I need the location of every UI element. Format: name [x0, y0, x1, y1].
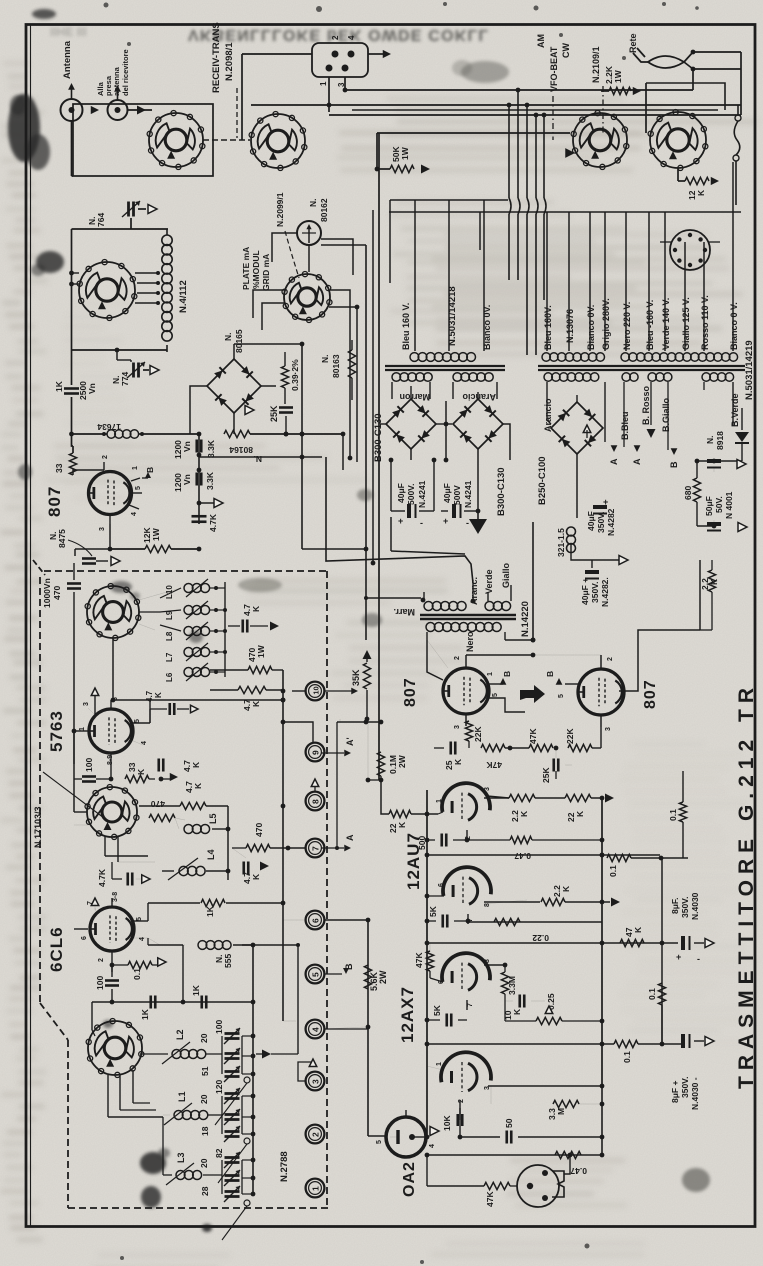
svg-text:TRASMETTITORE G.212 TR: TRASMETTITORE G.212 TR — [735, 682, 758, 1089]
svg-text:350V.: 350V. — [590, 582, 600, 603]
B arrow V2 — [500, 678, 507, 685]
svg-text:B.Verde: B.Verde — [730, 393, 740, 427]
cap 10K b — [456, 1114, 459, 1126]
junctions bundle — [516, 88, 521, 93]
svg-text:22K: 22K — [473, 726, 483, 742]
rotary switch S8 — [87, 586, 139, 638]
svg-text:L8: L8 — [165, 631, 174, 641]
vbus x199 — [198, 434, 200, 524]
coil L2 — [172, 1050, 181, 1059]
svg-text:A: A — [345, 834, 355, 841]
trimmer N.764 — [72, 228, 169, 230]
svg-text:764: 764 — [96, 213, 106, 227]
resistor 47K l — [426, 951, 433, 971]
BR3 out — [446, 423, 452, 425]
svg-text:RECEIV-TRANS: RECEIV-TRANS — [211, 22, 222, 93]
svg-text:%MODUL: %MODUL — [251, 250, 261, 289]
svg-text:25K: 25K — [269, 405, 279, 422]
antenna coupler box — [73, 104, 213, 176]
svg-text:0.47: 0.47 — [570, 1166, 587, 1176]
arrow into S3 — [565, 148, 575, 158]
dash-dot mode — [552, 96, 554, 140]
cap 4.7K v7top — [168, 703, 171, 715]
vbus x283 — [282, 670, 284, 1021]
svg-text:1W: 1W — [400, 146, 410, 160]
cap 40uF d — [585, 570, 599, 574]
switch left wires — [72, 272, 80, 274]
terminal 7 — [306, 839, 325, 858]
svg-text:4: 4 — [139, 937, 146, 941]
arrow J1-J2 — [91, 106, 99, 114]
svg-text:N.4282: N.4282 — [606, 508, 616, 536]
svg-text:+: + — [398, 516, 403, 526]
svg-text:1K: 1K — [140, 1008, 150, 1020]
cap 500 — [440, 834, 443, 847]
coil L9 — [184, 606, 193, 615]
V5b wires — [427, 1066, 443, 1070]
svg-text:5K: 5K — [428, 905, 438, 917]
cap 47K t — [242, 862, 245, 875]
rotary switch S3 mode — [573, 113, 627, 167]
vbus x379 — [378, 133, 380, 780]
svg-text:N.4030 -: N.4030 - — [690, 1077, 700, 1110]
svg-text:350V.: 350V. — [596, 512, 606, 533]
cap 1000Vn — [73, 563, 75, 580]
vbus x390 — [389, 200, 391, 283]
svg-text:6: 6 — [310, 918, 320, 923]
dash link S1a-S1b — [203, 139, 250, 141]
svg-text:1W: 1W — [151, 527, 161, 541]
T2 bottom wires — [576, 454, 578, 518]
cap 1K a — [149, 996, 152, 1009]
svg-text:L2: L2 — [175, 1029, 185, 1040]
V8 wires — [95, 908, 97, 914]
resistor 22K b — [568, 744, 592, 751]
vbus x343 — [342, 434, 344, 470]
svg-text:L7: L7 — [165, 652, 174, 662]
svg-text:40μF: 40μF — [586, 511, 596, 531]
wire n555 down — [182, 945, 184, 1002]
bridge rectifier N.80165 — [207, 359, 261, 413]
mains plug — [633, 53, 648, 62]
cap 10K — [518, 995, 521, 1008]
svg-text:K: K — [519, 810, 529, 817]
svg-text:A: A — [609, 458, 619, 465]
svg-text:774: 774 — [120, 372, 130, 386]
cap 5K b — [445, 1014, 448, 1027]
coil L4 — [179, 866, 188, 875]
meter wires — [308, 245, 310, 272]
wire PSU-T4 — [390, 517, 392, 551]
svg-text:20: 20 — [199, 1094, 209, 1104]
t3 wires — [298, 1062, 311, 1081]
svg-text:47K: 47K — [486, 760, 502, 770]
bridge wires — [233, 344, 235, 359]
svg-text:1000Vn: 1000Vn — [42, 578, 52, 608]
rotary switch S4 power — [650, 112, 706, 168]
svg-text:Rete: Rete — [628, 33, 638, 53]
tube V8 6CL6 — [90, 907, 134, 951]
vbus x253 — [252, 945, 254, 1195]
T2 secondary — [544, 373, 552, 381]
resistor 47K r — [620, 939, 644, 946]
cap 25K — [279, 406, 293, 409]
svg-text:100: 100 — [84, 758, 94, 772]
resistor 35K — [363, 650, 372, 659]
resistor 3.3M net — [601, 1086, 603, 1155]
cap 10K c — [427, 1103, 460, 1105]
svg-text:3: 3 — [454, 725, 461, 729]
svg-text:2: 2 — [102, 455, 109, 459]
bus y110 — [352, 109, 718, 111]
svg-text:K: K — [193, 782, 203, 789]
resistor 0.1d vert — [658, 983, 665, 1005]
svg-text:Rosso 110 V.: Rosso 110 V. — [700, 295, 710, 350]
svg-text:N.17103/3: N.17103/3 — [33, 806, 43, 848]
t6 wires — [324, 919, 368, 921]
svg-text:22K: 22K — [565, 728, 575, 744]
BR wires — [391, 382, 393, 399]
svg-text:6CL6: 6CL6 — [47, 926, 66, 972]
S7 bottom wires — [107, 1075, 109, 1117]
t10 wires — [292, 690, 306, 692]
S7 left wire — [91, 1002, 93, 1030]
BR4 wires — [576, 395, 578, 402]
dash pointer — [285, 231, 299, 278]
svg-text:1: 1 — [310, 1186, 320, 1191]
svg-text:3: 3 — [484, 787, 491, 791]
T2 sec wires — [546, 382, 548, 400]
terminal 4 — [306, 1020, 325, 1039]
svg-text:0.22: 0.22 — [532, 933, 549, 943]
wire top right 807 — [638, 630, 700, 660]
svg-text:N.2109/1: N.2109/1 — [591, 46, 601, 83]
triode V5a — [442, 953, 490, 982]
meter right wires — [321, 239, 353, 275]
svg-text:Verde: Verde — [484, 569, 494, 594]
arrow J2 out — [137, 106, 146, 115]
V1 pins — [103, 462, 105, 470]
svg-text:47K: 47K — [414, 952, 424, 968]
svg-text:120: 120 — [214, 1080, 224, 1094]
rotary switch S1a — [149, 113, 203, 167]
svg-text:1: 1 — [132, 466, 139, 470]
resistor 22K V4 — [565, 794, 591, 801]
svg-text:1: 1 — [436, 799, 443, 803]
svg-text:N.: N. — [320, 355, 330, 364]
svg-text:4: 4 — [310, 1027, 320, 1032]
terminal 9 — [306, 743, 325, 762]
vbus x228 — [227, 806, 229, 880]
svg-text:Marron: Marron — [399, 392, 430, 402]
svg-text:AM: AM — [536, 34, 546, 48]
svg-text:IIHE III: IIHE III — [50, 25, 87, 39]
svg-text:350V.: 350V. — [680, 1077, 690, 1098]
svg-text:555: 555 — [223, 954, 233, 968]
wire J1 down — [71, 121, 73, 176]
ecap 50uF — [707, 459, 721, 463]
dash-dot N2109 — [602, 86, 604, 135]
resistor 470 t7 — [246, 844, 270, 851]
svg-text:4: 4 — [429, 1144, 436, 1148]
svg-text:1W: 1W — [613, 69, 623, 83]
terminal 2 — [306, 1125, 325, 1144]
svg-text:500V: 500V — [452, 485, 462, 505]
svg-text:0.1: 0.1 — [132, 968, 142, 980]
rotary switch S5 tank — [79, 262, 135, 318]
svg-text:500V.: 500V. — [406, 484, 416, 505]
resistor 3.3M b — [553, 1100, 579, 1107]
V3 wires — [600, 655, 602, 669]
svg-text:Bleu 160 V.: Bleu 160 V. — [401, 303, 411, 350]
bridge BR2 — [386, 399, 436, 449]
V5a wires — [430, 978, 443, 982]
vbus x350 — [349, 300, 351, 458]
terminal 8 — [306, 792, 325, 811]
svg-text:del ricevitore: del ricevitore — [121, 49, 130, 96]
svg-text:N.2099/1: N.2099/1 — [275, 192, 285, 227]
s6 left wires — [74, 811, 87, 813]
svg-text:B250-C100: B250-C100 — [537, 456, 548, 505]
svg-text:470: 470 — [52, 586, 62, 600]
svg-text:0.39·2%: 0.39·2% — [290, 359, 300, 391]
svg-text:-: - — [697, 954, 700, 964]
V4b wires — [427, 895, 444, 897]
wire V5b net — [490, 1086, 492, 1104]
wire 1104 — [460, 1103, 553, 1105]
svg-text:1K: 1K — [54, 380, 64, 392]
resistor 680 — [693, 478, 700, 502]
svg-text:B: B — [502, 671, 512, 677]
T4 wires — [423, 592, 425, 601]
svg-text:80162: 80162 — [319, 198, 329, 222]
svg-text:82: 82 — [214, 1148, 224, 1158]
svg-text:8918: 8918 — [715, 431, 725, 450]
resistor 2.2K 1W — [609, 87, 631, 94]
resistor 5.6K — [364, 965, 371, 989]
svg-text:1K: 1K — [205, 905, 215, 917]
svg-text:2: 2 — [310, 1132, 320, 1137]
svg-text:GRID mA: GRID mA — [261, 254, 271, 291]
svg-text:40μF: 40μF — [442, 483, 452, 503]
socket pins — [332, 51, 339, 58]
svg-text:N.2788: N.2788 — [279, 1151, 290, 1182]
svg-text:0.1: 0.1 — [608, 865, 618, 877]
svg-text:4: 4 — [347, 35, 356, 40]
svg-text:807: 807 — [402, 677, 419, 707]
svg-text:1: 1 — [487, 672, 494, 676]
antenna jack J1 — [61, 99, 83, 121]
svg-text:N.4241: N.4241 — [463, 480, 473, 508]
T3 sec wires — [623, 382, 625, 447]
svg-text:680: 680 — [683, 486, 693, 500]
V7 wires — [88, 708, 95, 715]
VFO dashed box — [44, 570, 327, 572]
junction 655 — [531, 653, 536, 658]
svg-text:Vn: Vn — [182, 474, 192, 485]
svg-text:CW: CW — [561, 43, 571, 58]
svg-text:N.4241: N.4241 — [417, 480, 427, 508]
trimmer N.774 — [116, 350, 118, 360]
cap 25K b — [552, 759, 555, 772]
antenna jack J2 — [108, 100, 128, 120]
svg-text:807: 807 — [45, 486, 64, 517]
rotary switch S6 — [87, 787, 137, 837]
svg-text:350V.: 350V. — [680, 897, 690, 918]
wire 700 ext — [160, 699, 283, 701]
ecap 40uF a — [390, 460, 392, 511]
svg-text:3.3M: 3.3M — [507, 976, 517, 995]
octal socket X2 — [517, 1165, 559, 1207]
T1 secondary a — [392, 373, 401, 382]
svg-text:Bleu -160 V.: Bleu -160 V. — [645, 300, 655, 350]
resistor 470 s6 — [180, 802, 206, 809]
vbus x322 — [326, 457, 473, 583]
svg-text:3.3K: 3.3K — [206, 439, 216, 458]
resistor 33 — [69, 453, 76, 475]
svg-text:N.4030: N.4030 — [690, 892, 700, 920]
wire 719 — [337, 721, 381, 723]
coil 321-1.5 — [567, 527, 576, 536]
terminal 1 — [306, 1179, 325, 1198]
arrow Arancio — [583, 425, 591, 433]
T3 sec a — [622, 373, 630, 381]
vbus x373 — [372, 210, 374, 563]
bridge BR3 — [453, 399, 503, 449]
svg-text:N.: N. — [254, 454, 263, 464]
cap 4.7K mid — [126, 873, 129, 886]
dashed line N.2098 — [236, 88, 238, 138]
svg-text:5763: 5763 — [47, 710, 66, 752]
svg-text:0.1: 0.1 — [622, 1051, 632, 1063]
svg-text:K: K — [251, 873, 261, 880]
svg-text:B300-C130: B300-C130 — [496, 467, 507, 516]
socket X1 wires — [660, 241, 672, 243]
ground arrow T1 — [477, 511, 479, 519]
arrow socket out — [368, 53, 384, 55]
svg-text:B. Rosso: B. Rosso — [641, 385, 651, 425]
wire bundle — [508, 105, 510, 198]
svg-text:Antenna: Antenna — [62, 40, 73, 79]
svg-text:N.: N. — [705, 436, 715, 445]
svg-text:N.5031/14219: N.5031/14219 — [744, 340, 755, 400]
arrow bridge out — [245, 406, 254, 415]
svg-text:4.7: 4.7 — [145, 690, 154, 702]
tube V3 807 — [578, 669, 624, 715]
svg-text:K: K — [453, 758, 463, 765]
resistor 47K mid — [481, 744, 505, 751]
svg-text:25K: 25K — [541, 767, 551, 783]
T3 wires up — [625, 212, 627, 351]
svg-text:K: K — [251, 700, 261, 707]
cap 4.7K L bank — [241, 620, 244, 633]
svg-text:N.: N. — [223, 333, 233, 342]
wire 1044 — [427, 1043, 614, 1045]
svg-text:7: 7 — [310, 846, 320, 851]
svg-text:5: 5 — [376, 1140, 383, 1144]
cap 25K a — [449, 742, 452, 755]
svg-text:Nero 220 V.: Nero 220 V. — [622, 302, 632, 350]
coil L10 — [184, 584, 193, 593]
svg-text:B.Bleu: B.Bleu — [620, 411, 630, 440]
junctions T1 — [444, 422, 449, 427]
triode V4a — [442, 783, 490, 812]
ecap 8uF b — [681, 1034, 685, 1048]
terminal 5 — [306, 965, 325, 984]
resistor 1K 6cl6 — [201, 899, 225, 906]
wire y457 — [199, 456, 322, 458]
svg-text:+: + — [603, 497, 608, 507]
T2 primary — [542, 353, 550, 361]
svg-text:N.14220: N.14220 — [520, 601, 531, 637]
terminal 6 — [306, 911, 325, 930]
wire OA2 net — [368, 1135, 386, 1137]
svg-text:2: 2 — [607, 657, 614, 661]
terminal 10 — [306, 682, 325, 701]
t5 wires — [324, 973, 342, 975]
coil bus x225 — [224, 582, 226, 677]
wire J2 to S1a — [128, 109, 153, 111]
T1 primary — [410, 353, 419, 362]
svg-text:100: 100 — [214, 1020, 224, 1034]
svg-text:6: 6 — [81, 936, 88, 940]
svg-text:80165: 80165 — [234, 329, 244, 353]
bridge BR4 — [551, 402, 603, 454]
svg-text:10K: 10K — [442, 1115, 452, 1131]
svg-text:28: 28 — [200, 1186, 210, 1196]
wire 1137v — [459, 1108, 461, 1137]
resistor 470 1W — [248, 666, 272, 673]
svg-text:K: K — [397, 821, 407, 828]
tube V7 5763 — [89, 709, 133, 753]
T1 core — [385, 365, 505, 367]
tube V1 807 — [89, 472, 132, 515]
T3 core — [615, 365, 745, 367]
svg-text:Vn: Vn — [87, 383, 97, 394]
svg-text:N.13076: N.13076 — [565, 309, 575, 343]
wire 922 — [468, 921, 602, 923]
t8 wires — [314, 785, 316, 792]
svg-text:2W: 2W — [378, 970, 388, 984]
svg-text:8: 8 — [484, 959, 491, 963]
resistor 0.39 2% — [281, 366, 288, 388]
svg-text:47K: 47K — [485, 1191, 495, 1207]
svg-text:51: 51 — [200, 1066, 210, 1076]
svg-text:8μF.: 8μF. — [670, 897, 680, 914]
T2 wires up — [546, 212, 548, 351]
svg-text:B: B — [545, 671, 555, 677]
svg-text:A: A — [632, 458, 642, 465]
resistor 2.2K right — [708, 570, 715, 592]
svg-text:5: 5 — [310, 972, 320, 977]
cap 1200Vn b — [195, 473, 198, 486]
svg-text:K: K — [696, 189, 706, 196]
svg-text:5: 5 — [135, 486, 142, 490]
wire 855 — [427, 854, 660, 856]
wire socket left — [242, 53, 312, 55]
coil L1 — [174, 1111, 183, 1120]
svg-text:VFO-BEAT: VFO-BEAT — [549, 46, 559, 92]
svg-text:K: K — [512, 1008, 522, 1015]
resistor 2.2K V4 — [509, 794, 535, 801]
svg-text:N.2098/1: N.2098/1 — [224, 42, 235, 81]
rotary switch S2 meter — [284, 274, 330, 320]
wire S7 up right — [283, 1020, 296, 1022]
mains switch — [735, 115, 741, 121]
svg-text:7: 7 — [87, 901, 94, 905]
coil L3 — [176, 1171, 185, 1180]
tube V6 OA2 — [386, 1117, 426, 1157]
